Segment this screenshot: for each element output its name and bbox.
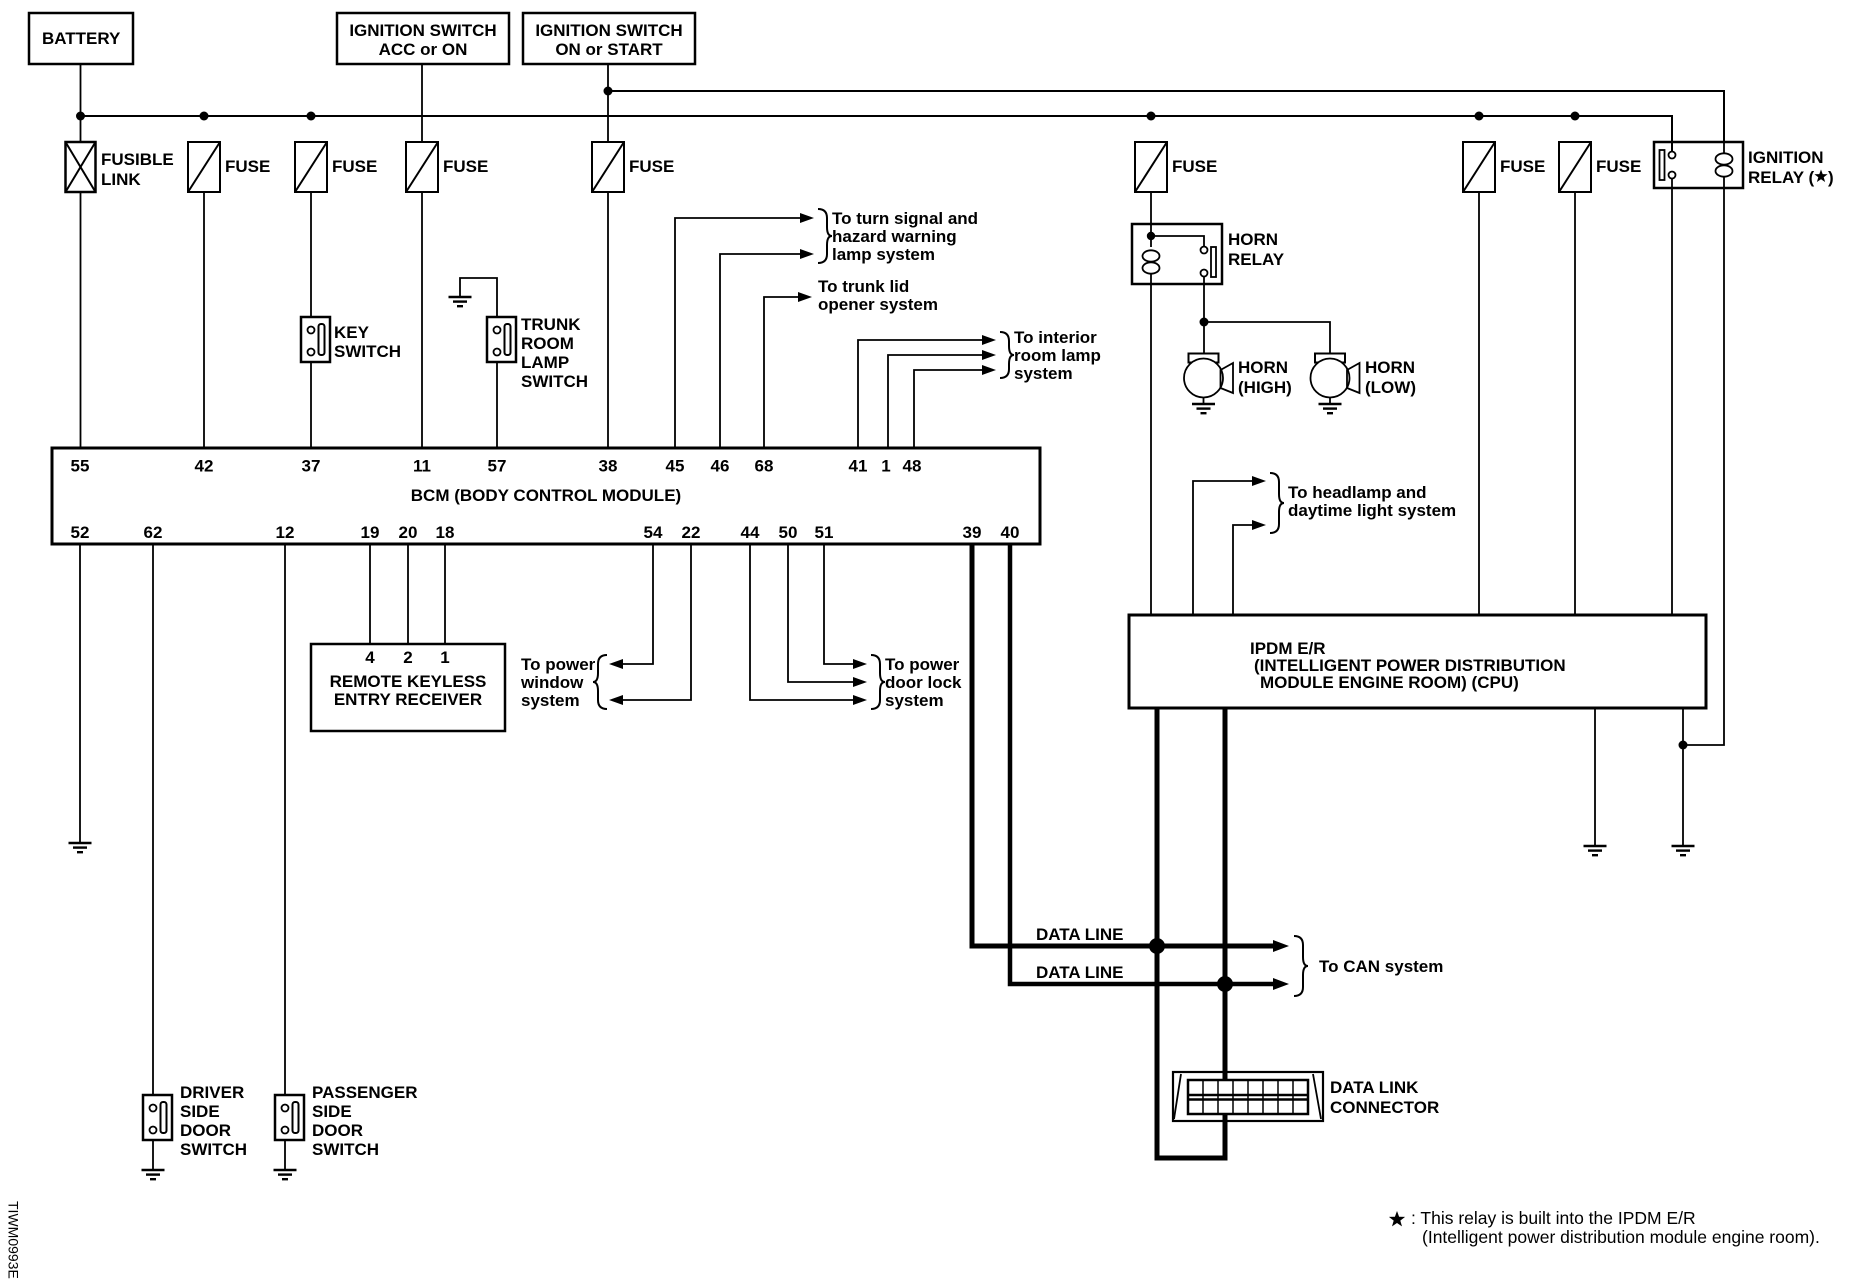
ground (driver door switch) bbox=[142, 1170, 165, 1179]
svg-text:(Intelligent power distributio: (Intelligent power distribution module e… bbox=[1422, 1227, 1820, 1247]
svg-text:To turn signal and: To turn signal and bbox=[832, 209, 978, 228]
node ignition relay coil ground junction bbox=[1679, 741, 1688, 750]
svg-text:IGNITION SWITCH: IGNITION SWITCH bbox=[349, 21, 496, 40]
wire pin 68 to trunk lid opener bbox=[764, 297, 798, 448]
node bus fuse 42 bbox=[200, 112, 209, 121]
wire pin 22 to power window system bbox=[623, 544, 691, 700]
svg-text:): ) bbox=[1828, 168, 1834, 187]
wire to horn low bbox=[1204, 322, 1330, 354]
ground (passenger door switch) bbox=[274, 1170, 297, 1179]
wire ignition ACC to BCM pin 11 bbox=[421, 64, 423, 142]
ignition switch ON or START box bbox=[523, 13, 695, 64]
wire fuse to BCM pin 11 bbox=[421, 192, 423, 448]
svg-text:ON or START: ON or START bbox=[555, 40, 663, 59]
svg-text:RELAY (: RELAY ( bbox=[1748, 168, 1814, 187]
svg-text:: This relay is built into the: : This relay is built into the IPDM E/R bbox=[1411, 1208, 1696, 1228]
svg-text:LINK: LINK bbox=[101, 170, 141, 189]
wire horn relay contact to horns bbox=[1203, 276, 1205, 354]
svg-text:51: 51 bbox=[815, 523, 834, 542]
wire horn relay coil to IPDM bbox=[1150, 284, 1152, 615]
svg-text:FUSE: FUSE bbox=[443, 157, 488, 176]
BCM body control module box bbox=[52, 448, 1040, 544]
svg-text:BATTERY: BATTERY bbox=[42, 29, 121, 48]
ignition relay contact pin circles bbox=[1669, 152, 1676, 159]
wire pin 54 to power window system bbox=[623, 544, 653, 664]
svg-text:DRIVER: DRIVER bbox=[180, 1083, 244, 1102]
wire pin 39 data line CAN bbox=[972, 544, 1273, 946]
svg-text:11: 11 bbox=[413, 457, 431, 476]
svg-text:50: 50 bbox=[779, 523, 798, 542]
wire pin 19 to receiver pin 4 bbox=[369, 544, 371, 644]
fusible link (pin 55) bbox=[66, 142, 96, 192]
node data line 1 junction bbox=[1149, 938, 1165, 954]
ground (horn high) bbox=[1192, 404, 1215, 413]
node bus fuse ipdm2 bbox=[1571, 112, 1580, 121]
node horn relay coil junction bbox=[1147, 232, 1155, 240]
data link connector bbox=[1173, 1072, 1323, 1121]
node bus battery bbox=[76, 112, 85, 121]
key switch bbox=[301, 317, 330, 362]
svg-text:DOOR: DOOR bbox=[180, 1121, 231, 1140]
brace CAN system bbox=[1294, 936, 1308, 996]
svg-text:TRUNK: TRUNK bbox=[521, 315, 581, 334]
fuse (pin 11) bbox=[406, 142, 438, 192]
svg-text:57: 57 bbox=[488, 457, 507, 476]
ground (pin 52) bbox=[69, 843, 92, 852]
svg-text:DATA LINK: DATA LINK bbox=[1330, 1078, 1419, 1097]
svg-text:system: system bbox=[1014, 364, 1073, 383]
svg-text:To CAN system: To CAN system bbox=[1319, 957, 1443, 976]
wire passenger door switch to ground bbox=[284, 1140, 286, 1170]
svg-text:daytime light system: daytime light system bbox=[1288, 501, 1456, 520]
wire IPDM CAN-L down to DLC top bbox=[1223, 708, 1228, 1081]
ground (trunk room lamp switch) bbox=[449, 297, 472, 306]
ground (IPDM 2) bbox=[1672, 846, 1695, 855]
svg-text:BCM (BODY CONTROL MODULE): BCM (BODY CONTROL MODULE) bbox=[411, 486, 681, 505]
wire fusible link to BCM pin 55 bbox=[80, 192, 82, 448]
horn relay contact circles bbox=[1201, 247, 1208, 254]
wire key switch to BCM pin 37 bbox=[310, 362, 312, 448]
svg-text:lamp system: lamp system bbox=[832, 245, 935, 264]
svg-text:To headlamp and: To headlamp and bbox=[1288, 483, 1427, 502]
wire pin 50 to power door lock system bbox=[788, 544, 853, 682]
horn relay contact bar bbox=[1211, 247, 1216, 277]
wire pin 62 to driver door switch bbox=[152, 544, 154, 1095]
svg-text:ACC or ON: ACC or ON bbox=[379, 40, 468, 59]
svg-text:44: 44 bbox=[741, 523, 760, 542]
svg-text:DOOR: DOOR bbox=[312, 1121, 363, 1140]
svg-text:SWITCH: SWITCH bbox=[180, 1140, 247, 1159]
svg-text:1: 1 bbox=[440, 648, 449, 667]
trunk room lamp switch bbox=[487, 317, 516, 362]
node horn junction bbox=[1200, 318, 1209, 327]
svg-text:RELAY: RELAY bbox=[1228, 250, 1285, 269]
svg-text:4: 4 bbox=[365, 648, 375, 667]
horn relay box bbox=[1132, 224, 1222, 284]
svg-text:41: 41 bbox=[849, 457, 868, 476]
svg-text:DATA LINE: DATA LINE bbox=[1036, 925, 1124, 944]
wire pin 40 data line CAN bbox=[1010, 544, 1273, 984]
svg-text:55: 55 bbox=[71, 457, 90, 476]
svg-text:20: 20 bbox=[399, 523, 418, 542]
svg-text:38: 38 bbox=[599, 457, 618, 476]
svg-text:room lamp: room lamp bbox=[1014, 346, 1101, 365]
remote keyless entry receiver box bbox=[311, 644, 505, 731]
brace headlamp bbox=[1270, 473, 1284, 533]
svg-text:48: 48 bbox=[903, 457, 922, 476]
svg-text:19: 19 bbox=[361, 523, 380, 542]
svg-text:18: 18 bbox=[436, 523, 455, 542]
node ON/START junction bbox=[604, 87, 613, 96]
svg-text:SIDE: SIDE bbox=[180, 1102, 220, 1121]
wire pin 44 to power door lock system bbox=[750, 544, 853, 700]
svg-text:FUSE: FUSE bbox=[1596, 157, 1641, 176]
svg-text:window: window bbox=[520, 673, 584, 692]
svg-text:To power: To power bbox=[521, 655, 596, 674]
wire ignition relay coil to ground join bbox=[1683, 188, 1724, 745]
svg-text:IGNITION SWITCH: IGNITION SWITCH bbox=[535, 21, 682, 40]
svg-text:12: 12 bbox=[276, 523, 295, 542]
wire ON/START feed to ignition relay coil bbox=[608, 91, 1724, 142]
note star bbox=[1389, 1211, 1405, 1226]
svg-text:68: 68 bbox=[755, 457, 774, 476]
svg-text:PASSENGER: PASSENGER bbox=[312, 1083, 418, 1102]
brace power door lock bbox=[871, 655, 885, 709]
svg-text:FUSE: FUSE bbox=[225, 157, 270, 176]
fuse (pin 38) bbox=[592, 142, 624, 192]
svg-text:54: 54 bbox=[644, 523, 663, 542]
wire pin 48 to interior room lamp bbox=[914, 370, 982, 448]
wire pin 1 to interior room lamp bbox=[888, 355, 982, 448]
wire pin 18 to receiver pin 1 bbox=[444, 544, 446, 644]
node data line 2 junction bbox=[1217, 976, 1233, 992]
svg-text:SWITCH: SWITCH bbox=[521, 372, 588, 391]
wire pin 52 to ground bbox=[79, 544, 81, 843]
wire IPDM ground 1 bbox=[1594, 708, 1596, 846]
wire fuse to BCM pin 42 bbox=[203, 192, 205, 448]
wire battery to bus bbox=[80, 64, 82, 142]
svg-text:SIDE: SIDE bbox=[312, 1102, 352, 1121]
svg-text:To power: To power bbox=[885, 655, 960, 674]
svg-text:ROOM: ROOM bbox=[521, 334, 574, 353]
horn relay internal wire bbox=[1150, 224, 1152, 247]
svg-text:HORN: HORN bbox=[1365, 358, 1415, 377]
svg-text:37: 37 bbox=[302, 457, 321, 476]
svg-text:39: 39 bbox=[963, 523, 982, 542]
svg-text:HORN: HORN bbox=[1228, 230, 1278, 249]
wire pin 46 to turn signal system bbox=[720, 254, 800, 448]
wire pin 45 to turn signal system bbox=[675, 218, 800, 448]
wire main battery bus bbox=[81, 116, 1673, 152]
ignition switch ACC or ON box bbox=[337, 13, 509, 64]
svg-text:DATA LINE: DATA LINE bbox=[1036, 963, 1124, 982]
brace turn signal bbox=[818, 209, 832, 263]
wire fuse to IPDM top left bbox=[1478, 192, 1480, 615]
svg-text:FUSE: FUSE bbox=[1172, 157, 1217, 176]
wire fuse to BCM pin 38 bbox=[607, 192, 609, 448]
wire headlamp arrow 2 bbox=[1233, 525, 1252, 615]
wire trunk switch to BCM pin 57 bbox=[496, 362, 498, 448]
fuse (pin 42) bbox=[188, 142, 220, 192]
svg-text:(LOW): (LOW) bbox=[1365, 378, 1416, 397]
svg-text:To trunk lid: To trunk lid bbox=[818, 277, 909, 296]
svg-text:FUSE: FUSE bbox=[629, 157, 674, 176]
wire horn fuse to horn relay bbox=[1150, 192, 1152, 224]
fuse (ipdm right) bbox=[1559, 142, 1591, 192]
brace power window bbox=[593, 655, 607, 709]
wire pin 20 to receiver pin 2 bbox=[407, 544, 409, 644]
svg-text:REMOTE KEYLESS: REMOTE KEYLESS bbox=[330, 672, 487, 691]
svg-text:HORN: HORN bbox=[1238, 358, 1288, 377]
svg-text:62: 62 bbox=[144, 523, 163, 542]
wire headlamp arrow 1 bbox=[1193, 481, 1252, 615]
ground (horn low) bbox=[1319, 404, 1342, 413]
svg-text:FUSE: FUSE bbox=[332, 157, 377, 176]
node bus fuse ipdm1 bbox=[1475, 112, 1484, 121]
wire pin 51 to power door lock system bbox=[824, 544, 853, 664]
svg-text:22: 22 bbox=[682, 523, 701, 542]
svg-text:FUSIBLE: FUSIBLE bbox=[101, 150, 174, 169]
ignition relay coil bbox=[1716, 153, 1733, 176]
svg-text:2: 2 bbox=[403, 648, 412, 667]
svg-text:system: system bbox=[885, 691, 944, 710]
node bus fuse 37 bbox=[307, 112, 316, 121]
svg-text:KEY: KEY bbox=[334, 323, 370, 342]
ground (IPDM 1) bbox=[1584, 846, 1607, 855]
svg-text:LAMP: LAMP bbox=[521, 353, 569, 372]
brace interior room lamp bbox=[1000, 332, 1014, 378]
wire driver door switch to ground bbox=[152, 1140, 154, 1170]
svg-text:46: 46 bbox=[711, 457, 730, 476]
wire pin 41 to interior room lamp bbox=[858, 340, 982, 448]
svg-text:(HIGH): (HIGH) bbox=[1238, 378, 1292, 397]
battery box bbox=[29, 13, 133, 64]
svg-text:MODULE ENGINE ROOM) (CPU): MODULE ENGINE ROOM) (CPU) bbox=[1260, 673, 1519, 692]
svg-text:52: 52 bbox=[71, 523, 90, 542]
svg-text:TIWM0993E: TIWM0993E bbox=[6, 1201, 22, 1279]
svg-text:opener system: opener system bbox=[818, 295, 938, 314]
wire trunk switch to ground bbox=[460, 278, 497, 317]
fuse (horn relay) bbox=[1135, 142, 1167, 192]
fuse (ipdm left) bbox=[1463, 142, 1495, 192]
svg-text:IGNITION: IGNITION bbox=[1748, 148, 1824, 167]
horn relay coil bbox=[1143, 250, 1160, 273]
svg-text:40: 40 bbox=[1001, 523, 1020, 542]
wire IPDM CAN-H down and loop to DLC bottom bbox=[1157, 708, 1225, 1158]
svg-text:ENTRY RECEIVER: ENTRY RECEIVER bbox=[334, 690, 482, 709]
node bus horn fuse bbox=[1147, 112, 1156, 121]
driver side door switch bbox=[143, 1095, 172, 1140]
IPDM E/R box bbox=[1129, 615, 1706, 708]
svg-text:hazard warning: hazard warning bbox=[832, 227, 957, 246]
horn (high) bbox=[1184, 354, 1233, 405]
ignition relay contact bar bbox=[1660, 150, 1665, 180]
svg-text:1: 1 bbox=[881, 457, 890, 476]
wire fuse to IPDM top right bbox=[1574, 192, 1576, 615]
svg-text:door lock: door lock bbox=[885, 673, 962, 692]
svg-text:To interior: To interior bbox=[1014, 328, 1097, 347]
wire ignition ON/START down to fuse 38 bbox=[607, 64, 609, 142]
svg-text:45: 45 bbox=[666, 457, 685, 476]
ignition relay box bbox=[1654, 142, 1743, 188]
passenger side door switch bbox=[275, 1095, 304, 1140]
svg-text:system: system bbox=[521, 691, 580, 710]
svg-text:SWITCH: SWITCH bbox=[334, 342, 401, 361]
svg-text:SWITCH: SWITCH bbox=[312, 1140, 379, 1159]
wire IPDM ground 2 bbox=[1682, 708, 1684, 846]
wire ignition relay contact to IPDM bbox=[1671, 179, 1673, 616]
wire pin 12 to passenger door switch bbox=[284, 544, 286, 1095]
wire fuse to key switch bbox=[310, 192, 312, 317]
svg-text:42: 42 bbox=[195, 457, 214, 476]
svg-text:FUSE: FUSE bbox=[1500, 157, 1545, 176]
svg-text:CONNECTOR: CONNECTOR bbox=[1330, 1098, 1439, 1117]
horn (low) bbox=[1311, 354, 1360, 405]
fuse (pin 37) bbox=[295, 142, 327, 192]
